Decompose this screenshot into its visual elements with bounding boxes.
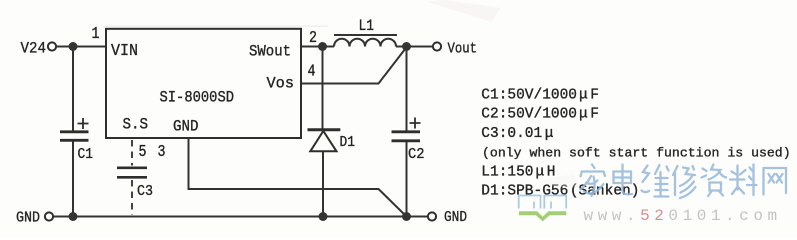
pin number 5: [139, 142, 147, 161]
watermark chinese character liao: [730, 165, 757, 196]
wire C2 branch bottom: [406, 142, 408, 217]
node C1 ground junction: [69, 212, 78, 221]
watermark chinese character wang: [764, 168, 787, 195]
watermark chinese character jia: [581, 165, 606, 197]
svg-text:www.520101.com: www.520101.com: [584, 207, 782, 225]
IC pin name Vos: [267, 75, 295, 93]
wire switch node down to D1: [322, 47, 324, 129]
svg-text:D1: D1: [340, 134, 356, 151]
terminal Vout: [433, 41, 477, 58]
parts list line C3 value: [481, 126, 553, 142]
terminal GND right: [428, 209, 467, 226]
svg-text:GND: GND: [173, 118, 199, 136]
wire L1 to Vout: [396, 46, 433, 48]
capacitor label C1: [78, 146, 94, 163]
wire bottom ground rail: [53, 216, 428, 218]
IC pin name VIN: [111, 42, 138, 61]
IC part number SI-8000SD: [160, 89, 235, 107]
terminal V24: [21, 39, 57, 57]
svg-text:1: 1: [92, 24, 100, 43]
watermark chinese character dian: [614, 165, 633, 195]
svg-text:2: 2: [309, 28, 317, 47]
svg-text:C1: C1: [78, 146, 94, 163]
svg-text:GND: GND: [444, 209, 467, 226]
wire C1 branch top: [72, 47, 74, 131]
svg-text:3: 3: [158, 142, 166, 161]
capacitor label C3: [137, 183, 153, 200]
capacitor C3 (soft start, dashed leads): [117, 140, 147, 215]
watermark chinese character zi: [702, 165, 727, 197]
svg-text:Vos: Vos: [267, 75, 295, 93]
wire SWout pin2 to L1: [301, 46, 334, 48]
svg-text:Vout: Vout: [448, 41, 478, 58]
svg-text:SWout: SWout: [249, 43, 291, 61]
pin number 3: [158, 142, 166, 161]
capacitor label C2: [408, 146, 425, 163]
parts list line L1 value: [481, 165, 555, 181]
scan smudge top: [103, 0, 580, 187]
svg-text:4: 4: [308, 62, 316, 81]
capacitor C1: [60, 118, 89, 140]
diode D1: [308, 130, 341, 152]
svg-text:VIN: VIN: [111, 42, 138, 61]
IC U1 SI-8000SD body: [106, 29, 301, 138]
IC pin name SWout: [249, 43, 291, 61]
wire Vos pin4 feedback to output node: [301, 49, 406, 84]
IC pin name GND: [173, 118, 199, 136]
svg-text:L1:150μH: L1:150μH: [481, 165, 555, 181]
svg-text:C2:50V/1000μF: C2:50V/1000μF: [481, 107, 599, 123]
wire D1 anode to ground rail: [322, 152, 324, 217]
svg-text:5: 5: [139, 142, 147, 161]
svg-text:V24: V24: [21, 39, 47, 57]
svg-text:S.S: S.S: [123, 116, 149, 134]
wire top rail V24 to VIN: [56, 46, 106, 48]
watermark chinese character wei: [642, 165, 669, 197]
parts list line D1 value: [481, 184, 639, 200]
svg-text:L1: L1: [359, 17, 375, 35]
node output junction: [402, 42, 411, 51]
pin number 2: [309, 28, 317, 47]
wire GND pin3 to ground rail: [189, 138, 407, 216]
terminal GND left: [16, 210, 53, 227]
watermark logo book icon: [519, 196, 567, 222]
svg-text:C2: C2: [408, 146, 425, 163]
inductor L1: [334, 35, 397, 47]
inductor label L1: [359, 17, 375, 35]
svg-text:SI-8000SD: SI-8000SD: [160, 89, 235, 107]
svg-text:C1:50V/1000μF: C1:50V/1000μF: [481, 87, 599, 103]
diode label D1: [340, 134, 356, 151]
node switch junction: [318, 42, 327, 51]
svg-text:(only when soft start function: (only when soft start function is used): [482, 145, 791, 160]
node D1 ground junction: [319, 212, 328, 221]
wire C1 branch bottom: [72, 142, 74, 217]
svg-text:C3: C3: [137, 183, 153, 200]
parts list line C1 value: [481, 87, 599, 103]
watermark url www.520101.com: [584, 207, 782, 225]
watermark chinese character xiu: [673, 166, 696, 198]
svg-text:C3:0.01μ: C3:0.01μ: [481, 126, 553, 142]
node input junction: [69, 42, 78, 51]
node C2 ground junction: [402, 212, 411, 221]
svg-text:GND: GND: [16, 210, 40, 227]
pin number 4: [308, 62, 316, 81]
IC pin name S.S: [123, 116, 149, 134]
capacitor C2: [392, 118, 421, 141]
pin number 1: [92, 24, 100, 43]
parts list line C2 value: [481, 107, 599, 123]
parts list note soft start: [482, 145, 791, 160]
wire C2 branch top: [406, 47, 408, 131]
